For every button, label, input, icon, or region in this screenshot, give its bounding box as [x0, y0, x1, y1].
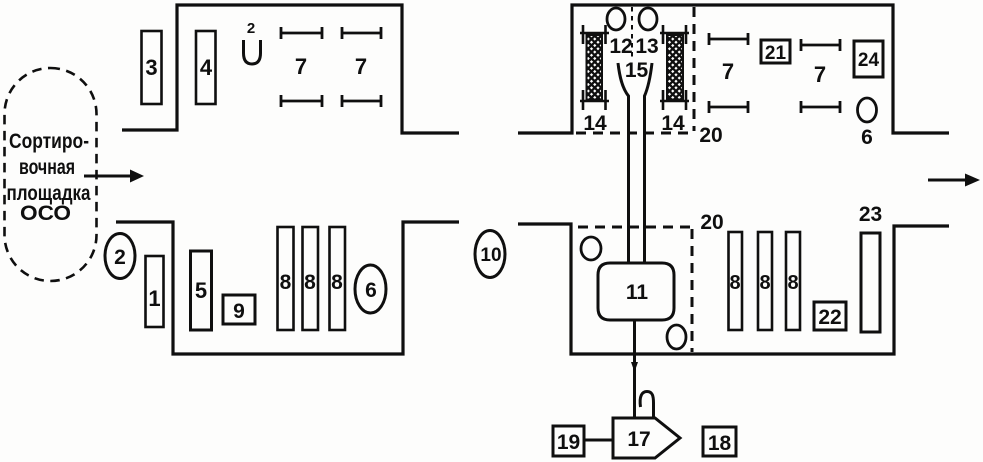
svg-text:14: 14	[661, 112, 685, 135]
svg-text:22: 22	[818, 306, 841, 329]
svg-text:18: 18	[708, 432, 732, 455]
dashed split line between 12 and 13	[631, 7, 633, 58]
bench 7c top bracket	[709, 33, 748, 45]
rack 1	[146, 256, 164, 327]
svg-text:15: 15	[625, 59, 649, 82]
box 18	[703, 427, 736, 456]
rack 8d	[729, 232, 743, 330]
bench 7a bottom bracket	[281, 95, 322, 107]
svg-text:8: 8	[280, 271, 292, 294]
conveyor line 15 right	[645, 63, 653, 263]
box 22	[814, 302, 846, 330]
svg-text:12: 12	[609, 35, 632, 58]
rack 4	[196, 31, 216, 104]
box 24	[854, 41, 883, 77]
svg-text:10: 10	[480, 245, 501, 266]
svg-text:24: 24	[858, 50, 880, 71]
rack 8a	[278, 227, 294, 330]
svg-text:7: 7	[722, 59, 734, 84]
svg-text:20: 20	[700, 211, 723, 234]
ellipse 6 bottom-left	[355, 265, 386, 313]
ellipse 10	[475, 231, 505, 278]
filter 14 left caps	[580, 25, 609, 110]
ellipse 13	[639, 8, 657, 30]
wall: dashed divider right of central-top building	[693, 7, 696, 131]
ellipse inside central-bottom bottom-right	[667, 325, 686, 349]
svg-text:19: 19	[557, 431, 580, 454]
svg-text:23: 23	[859, 203, 882, 226]
svg-text:ОСО: ОСО	[20, 202, 71, 225]
svg-text:21: 21	[765, 43, 787, 64]
svg-text:3: 3	[145, 55, 157, 80]
bench 7d top bracket	[801, 39, 840, 51]
svg-text:8: 8	[787, 272, 798, 294]
box 21	[761, 40, 790, 64]
bench 7a top bracket	[281, 27, 322, 39]
rack 8f	[786, 232, 800, 330]
bench 7b bottom bracket	[342, 95, 381, 107]
svg-text:вочная: вочная	[19, 156, 75, 179]
svg-text:7: 7	[355, 54, 367, 79]
hook on 17	[640, 392, 653, 418]
ellipse 6 top-right	[858, 98, 877, 122]
output line from 11	[633, 320, 636, 418]
bench 7b top bracket	[342, 27, 381, 39]
svg-text:9: 9	[233, 300, 245, 323]
wall: dashed top of central-bottom building	[578, 226, 692, 229]
ellipse 12	[607, 8, 625, 30]
exit arrow	[928, 174, 980, 187]
svg-text:5: 5	[195, 278, 207, 303]
wall: central-bottom and right-bottom buildings	[518, 224, 949, 354]
filter 14 right caps	[660, 25, 689, 110]
entrance arrow	[84, 170, 144, 183]
bench 7c bottom bracket	[709, 101, 748, 113]
svg-text:2: 2	[247, 20, 255, 37]
svg-text:17: 17	[627, 428, 650, 451]
rack 5	[191, 251, 212, 330]
rack 8b	[303, 227, 319, 330]
connector 19 to 17	[584, 439, 613, 442]
wall: central-top and right-top buildings	[518, 5, 949, 133]
wall: dashed bottom of central-top building	[576, 132, 694, 135]
pointer box 17	[613, 418, 680, 458]
wall: dashed divider bottom buildings	[691, 229, 694, 352]
svg-text:Сортиро-: Сортиро-	[9, 130, 89, 153]
svg-text:1: 1	[148, 286, 160, 311]
svg-text:8: 8	[759, 272, 770, 294]
svg-text:8: 8	[304, 271, 316, 294]
rack 8e	[758, 232, 772, 330]
filter 14 left hatched body	[587, 35, 603, 100]
svg-text:6: 6	[365, 279, 377, 302]
rack 3	[142, 31, 162, 104]
rack 8c	[330, 227, 346, 330]
capsule text	[7, 130, 91, 225]
box 19	[553, 426, 584, 456]
machine 11	[598, 263, 674, 320]
svg-text:7: 7	[814, 62, 826, 87]
svg-text:8: 8	[331, 271, 343, 294]
svg-text:11: 11	[626, 281, 649, 304]
svg-text:4: 4	[200, 55, 213, 80]
rack 23	[861, 233, 880, 332]
box 9	[223, 295, 255, 324]
svg-text:7: 7	[295, 54, 307, 79]
conveyor line 15 left	[618, 63, 629, 263]
svg-text:6: 6	[861, 126, 873, 149]
wall: upper-left building outline	[122, 5, 459, 133]
ellipse 2	[105, 234, 135, 279]
filter 14 right hatched body	[667, 35, 683, 100]
svg-text:2: 2	[114, 246, 126, 269]
ellipse inside central-bottom top-left	[581, 237, 601, 260]
hook device 2 (U shape)	[244, 40, 261, 64]
arrowhead on output line	[631, 362, 638, 372]
wall: bottom-left building outline	[116, 222, 459, 354]
sorting area capsule (Сортировочная площадка ОСО)	[5, 68, 97, 281]
bench 7d bottom bracket	[801, 101, 840, 113]
svg-text:14: 14	[583, 112, 607, 135]
svg-text:8: 8	[729, 272, 740, 294]
svg-text:20: 20	[699, 124, 722, 147]
svg-text:13: 13	[635, 35, 658, 58]
